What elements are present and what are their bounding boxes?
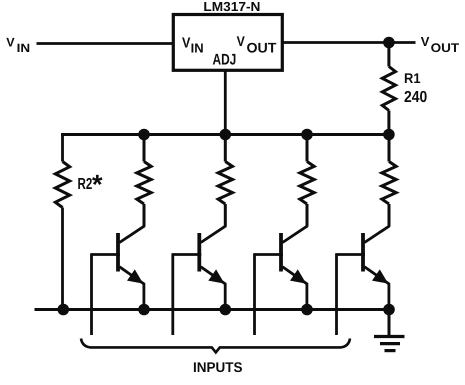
wire V_OUT output xyxy=(281,41,416,44)
transistor Q1 cell xyxy=(92,135,152,336)
svg-text:*: * xyxy=(92,170,103,200)
resistor R2* xyxy=(55,162,69,208)
node R2 bottom junction xyxy=(58,304,70,316)
svg-text:R1: R1 xyxy=(404,70,421,86)
svg-text:V: V xyxy=(6,35,15,49)
node rail junction 3 xyxy=(301,129,313,141)
wire emitter rail (bottom horizontal) xyxy=(35,308,391,311)
op-amp U1 regulator LM317-N box xyxy=(173,15,282,71)
svg-text:OUT: OUT xyxy=(247,39,277,55)
ground xyxy=(374,310,405,351)
svg-text:ADJ: ADJ xyxy=(213,52,237,69)
wire R2 bottom lead xyxy=(61,208,64,310)
svg-text:IN: IN xyxy=(17,41,31,55)
svg-text:OUT: OUT xyxy=(431,41,460,55)
transistor Q3 cell xyxy=(255,135,315,336)
node rail junction 4 (R1 bottom) xyxy=(383,129,395,141)
svg-text:INPUTS: INPUTS xyxy=(193,359,243,375)
wire V_IN input xyxy=(37,42,175,45)
brace under inputs xyxy=(81,339,350,353)
node rail junction 2 (ADJ) xyxy=(220,129,232,141)
svg-text:V: V xyxy=(421,34,430,49)
svg-text:240: 240 xyxy=(404,89,427,106)
svg-text:LM317-N: LM317-N xyxy=(203,0,260,14)
svg-text:V: V xyxy=(237,33,246,49)
svg-text:R2: R2 xyxy=(78,176,93,193)
svg-text:IN: IN xyxy=(191,41,204,56)
node rail junction 1 xyxy=(138,129,150,141)
wire rail left corner down xyxy=(61,133,64,161)
wire ADJ to rail xyxy=(224,69,227,135)
transistor Q2 cell xyxy=(173,135,233,336)
transistor Q4 cell xyxy=(337,135,397,336)
wire ADJ rail (top horizontal) xyxy=(61,133,390,136)
node junction Vout/R1 xyxy=(383,37,395,49)
svg-text:V: V xyxy=(182,35,191,51)
resistor R1 xyxy=(387,43,390,67)
